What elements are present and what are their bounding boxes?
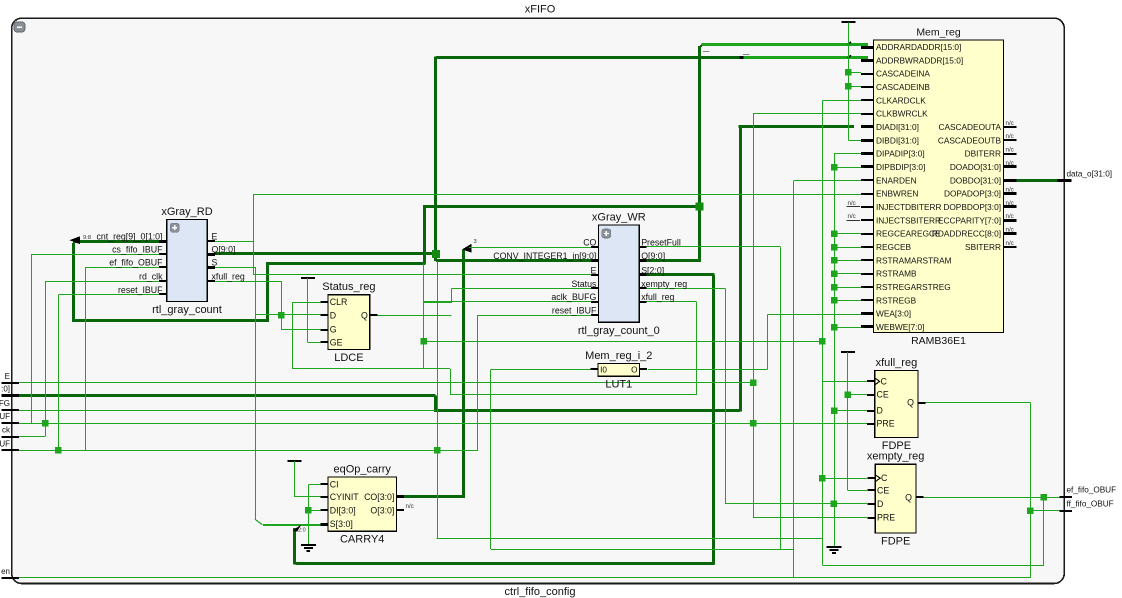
svg-text:LUT1: LUT1 [605,379,632,391]
svg-text:n/c: n/c [1006,213,1014,220]
svg-text:3: 3 [474,239,477,245]
svg-text:ctrl_fifo_config: ctrl_fifo_config [505,586,576,598]
svg-text:aclk_BUFG: aclk_BUFG [551,292,596,302]
svg-text:CI: CI [330,479,339,489]
svg-text:SBITERR: SBITERR [965,242,1001,252]
svg-text:REGCEB: REGCEB [876,242,912,252]
svg-text:xGray_RD: xGray_RD [161,206,212,218]
svg-text:xempty_reg: xempty_reg [641,279,687,289]
svg-text:n/c: n/c [1006,186,1014,193]
svg-text:INJECTDBITERR: INJECTDBITERR [876,202,941,212]
svg-text:ENARDEN: ENARDEN [876,175,917,185]
svg-text:xGray_WR: xGray_WR [592,212,646,224]
svg-text:n/c: n/c [406,503,414,510]
svg-text:DOADO[31:0]: DOADO[31:0] [950,162,1001,172]
svg-text:D: D [877,406,883,416]
svg-text:data_o[31:0]: data_o[31:0] [1067,169,1113,178]
svg-text:CLR: CLR [330,297,348,307]
svg-text:reset_IBUF: reset_IBUF [118,285,163,295]
svg-text:Status: Status [571,279,597,289]
svg-text:xFIFO: xFIFO [525,4,556,16]
svg-text:CO[3:0]: CO[3:0] [364,492,394,502]
svg-text:eqOp_carry: eqOp_carry [333,464,391,476]
svg-text:9:8: 9:8 [83,235,91,241]
svg-text:O: O [631,366,637,375]
svg-text:ENBWREN: ENBWREN [876,189,918,199]
svg-text:DI[3:0]: DI[3:0] [330,506,356,516]
svg-text:PresetFull: PresetFull [641,237,681,247]
svg-text:ef_fifo_OBUF: ef_fifo_OBUF [109,258,163,268]
svg-text:CASCADEINB: CASCADEINB [876,82,930,92]
svg-text:RDADDRECC[8:0]: RDADDRECC[8:0] [932,229,1001,239]
svg-text:ef_fifo_OBUF: ef_fifo_OBUF [1067,485,1117,494]
svg-text:CLKARDCLK: CLKARDCLK [876,95,926,105]
svg-text:xempty_reg: xempty_reg [867,451,924,463]
svg-text:WEBWE[7:0]: WEBWE[7:0] [876,322,924,332]
svg-text:ADDRARDADDR[15:0]: ADDRARDADDR[15:0] [876,42,961,52]
svg-text:Q: Q [905,492,912,502]
svg-text:FDPE: FDPE [881,535,910,547]
svg-text:S[3:0]: S[3:0] [330,519,353,529]
svg-text:RSTRAMARSTRAM: RSTRAMARSTRAM [876,255,952,265]
svg-text:xfull_reg: xfull_reg [212,272,245,282]
svg-text:rtl_gray_count_0: rtl_gray_count_0 [578,325,660,337]
svg-text:E: E [5,372,10,381]
svg-text:CASCADEOUTA: CASCADEOUTA [938,122,1001,132]
svg-text:CASCADEINA: CASCADEINA [876,69,930,79]
svg-text:xfull_reg: xfull_reg [641,292,674,302]
svg-text:n/c: n/c [1006,133,1014,140]
svg-text:rd_clk: rd_clk [139,272,163,282]
svg-text:UF: UF [0,439,10,448]
svg-text:INJECTSBITERR: INJECTSBITERR [876,215,941,225]
svg-text:PRE: PRE [877,419,895,429]
svg-text:n/c: n/c [1006,120,1014,127]
svg-text:n/c: n/c [1006,200,1014,207]
svg-text:WEA[3:0]: WEA[3:0] [876,309,911,319]
svg-text:Status_reg: Status_reg [322,281,375,293]
svg-text:DBITERR: DBITERR [965,149,1001,159]
svg-text:Q: Q [907,398,914,408]
svg-text:Mem_reg_i_2: Mem_reg_i_2 [585,350,652,362]
svg-text:D: D [877,499,883,509]
svg-text:cnt_reg[9]_0[1:0]: cnt_reg[9]_0[1:0] [96,232,162,242]
svg-text:DIADI[31:0]: DIADI[31:0] [876,122,919,132]
svg-text:DIPADIP[3:0]: DIPADIP[3:0] [876,149,925,159]
svg-text:CE: CE [877,485,889,495]
svg-text:reset_IBUF: reset_IBUF [552,306,597,316]
svg-text:DOPBDOP[3:0]: DOPBDOP[3:0] [943,202,1001,212]
svg-text:GE: GE [330,337,343,347]
svg-text:CYINIT: CYINIT [330,492,359,502]
svg-text:S[2:0]: S[2:0] [641,265,664,275]
svg-text:C: C [881,376,888,386]
svg-text:ck: ck [2,426,11,435]
svg-text:ADDRBWRADDR[15:0]: ADDRBWRADDR[15:0] [876,55,963,65]
svg-text:RAMB36E1: RAMB36E1 [911,335,966,347]
svg-text:rtl_gray_count: rtl_gray_count [152,304,222,316]
svg-text:CE: CE [877,390,889,400]
svg-text:DIPBDIP[3:0]: DIPBDIP[3:0] [876,162,925,172]
svg-text:n/c: n/c [1006,146,1014,153]
svg-text:DIBDI[31:0]: DIBDI[31:0] [876,135,919,145]
svg-text:D: D [330,310,336,320]
svg-text:Q[9:0]: Q[9:0] [641,251,665,261]
svg-text:C: C [881,473,888,483]
svg-text:en: en [1,567,10,576]
svg-text:n/c: n/c [848,213,856,220]
svg-text:Q[9:0]: Q[9:0] [212,245,236,255]
svg-text:S: S [212,258,218,268]
svg-text:CARRY4: CARRY4 [340,534,384,546]
svg-text:RSTREGB: RSTREGB [876,295,917,305]
svg-text:DOBDO[31:0]: DOBDO[31:0] [950,175,1001,185]
svg-text:LDCE: LDCE [334,352,363,364]
svg-text:xfull_reg: xfull_reg [876,357,918,369]
svg-text:CLKBWRCLK: CLKBWRCLK [876,109,928,119]
svg-text:cs_fifo_IBUF: cs_fifo_IBUF [112,245,163,255]
svg-text:RSTREGARSTREG: RSTREGARSTREG [876,282,951,292]
svg-text:RSTRAMB: RSTRAMB [876,269,917,279]
svg-text:n/c: n/c [848,200,856,207]
svg-text:CASCADEOUTB: CASCADEOUTB [938,135,1002,145]
svg-text:I0: I0 [600,366,607,375]
svg-text:ff_fifo_OBUF: ff_fifo_OBUF [1067,499,1114,508]
svg-text:n/c: n/c [1006,160,1014,167]
svg-text:2:0: 2:0 [298,528,306,534]
svg-text:E: E [212,232,218,242]
svg-text:DOPADOP[3:0]: DOPADOP[3:0] [944,189,1001,199]
svg-text:PRE: PRE [877,513,895,523]
svg-text:Mem_reg: Mem_reg [916,27,961,39]
svg-text:CO: CO [583,237,596,247]
svg-text:n/c: n/c [1006,226,1014,233]
svg-text:FG: FG [0,399,10,408]
svg-text:ECCPARITY[7:0]: ECCPARITY[7:0] [938,215,1001,225]
svg-text:n/c: n/c [1006,240,1014,247]
svg-text:O[3:0]: O[3:0] [370,506,394,516]
svg-text::0]: :0] [1,385,10,394]
svg-text:UF: UF [0,412,10,421]
svg-text:Q: Q [361,310,368,320]
svg-text:E: E [591,265,597,275]
svg-text:G: G [330,325,337,335]
svg-text:CONV_INTEGER1_in[9:0]: CONV_INTEGER1_in[9:0] [493,251,596,261]
